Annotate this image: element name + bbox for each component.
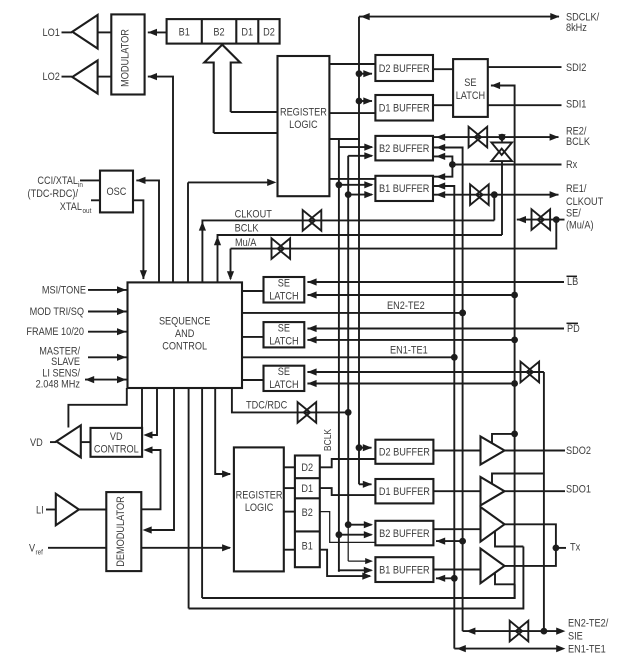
svg-text:B1: B1 — [302, 541, 314, 553]
svg-text:SE/: SE/ — [566, 208, 581, 220]
svg-text:LOGIC: LOGIC — [245, 503, 274, 515]
svg-text:CLKOUT: CLKOUT — [235, 209, 272, 221]
svg-text:(TDC-RDC)/: (TDC-RDC)/ — [28, 188, 79, 200]
svg-text:MOD TRI/SQ: MOD TRI/SQ — [30, 306, 85, 318]
svg-text:EN2-TE2/: EN2-TE2/ — [568, 618, 608, 630]
svg-text:B1 BUFFER: B1 BUFFER — [379, 565, 429, 577]
svg-text:D2 BUFFER: D2 BUFFER — [379, 447, 430, 459]
svg-text:B1 BUFFER: B1 BUFFER — [379, 184, 429, 196]
svg-text:OSC: OSC — [107, 186, 127, 198]
svg-text:VD: VD — [30, 437, 43, 449]
svg-text:LATCH: LATCH — [269, 336, 298, 348]
svg-text:B2: B2 — [213, 27, 225, 39]
svg-text:LATCH: LATCH — [269, 291, 298, 303]
svg-text:FRAME 10/20: FRAME 10/20 — [26, 327, 84, 339]
svg-text:SDO1: SDO1 — [566, 484, 591, 496]
svg-text:V: V — [29, 543, 35, 555]
svg-text:SEQUENCE: SEQUENCE — [159, 316, 211, 328]
svg-text:EN2-TE2: EN2-TE2 — [387, 300, 425, 312]
svg-text:EN1-TE1: EN1-TE1 — [390, 345, 428, 357]
svg-text:EN1-TE1: EN1-TE1 — [568, 644, 606, 656]
svg-text:Rx: Rx — [566, 160, 577, 172]
svg-text:D2: D2 — [301, 462, 313, 474]
svg-text:TDC/RDC: TDC/RDC — [246, 400, 287, 412]
svg-text:8kHz: 8kHz — [566, 22, 587, 34]
svg-text:SDI1: SDI1 — [566, 99, 587, 111]
svg-text:XTAL: XTAL — [60, 201, 83, 213]
svg-text:RE1/: RE1/ — [566, 184, 587, 196]
svg-text:B2: B2 — [302, 507, 314, 519]
svg-text:in: in — [78, 182, 83, 190]
svg-text:SE: SE — [278, 366, 291, 378]
svg-text:SE: SE — [278, 323, 291, 335]
svg-text:SDI2: SDI2 — [566, 62, 587, 74]
svg-text:D1: D1 — [241, 27, 253, 39]
svg-text:LB: LB — [567, 276, 579, 288]
svg-text:D1: D1 — [301, 483, 313, 495]
svg-text:Mu/A: Mu/A — [235, 237, 257, 249]
svg-text:2.048 MHz: 2.048 MHz — [36, 379, 80, 391]
svg-text:B2 BUFFER: B2 BUFFER — [379, 143, 429, 155]
svg-text:D2: D2 — [263, 27, 275, 39]
svg-text:Tx: Tx — [570, 542, 580, 554]
svg-text:SIE: SIE — [568, 631, 583, 643]
svg-text:SE: SE — [278, 278, 291, 290]
svg-text:LI: LI — [36, 505, 44, 517]
svg-text:AND: AND — [175, 328, 194, 340]
svg-text:REGISTER: REGISTER — [236, 490, 283, 502]
svg-text:MODULATOR: MODULATOR — [120, 29, 132, 87]
svg-text:SLAVE: SLAVE — [51, 356, 80, 368]
svg-text:BCLK: BCLK — [322, 428, 333, 451]
svg-text:VD: VD — [110, 431, 123, 443]
svg-text:REGISTER: REGISTER — [280, 107, 327, 119]
svg-text:(Mu/A): (Mu/A) — [566, 220, 594, 232]
svg-text:B2 BUFFER: B2 BUFFER — [379, 528, 429, 540]
svg-text:B1: B1 — [179, 27, 191, 39]
svg-text:BCLK: BCLK — [566, 137, 590, 149]
svg-text:BCLK: BCLK — [235, 223, 259, 235]
svg-text:CONTROL: CONTROL — [162, 341, 207, 353]
svg-text:LATCH: LATCH — [269, 379, 298, 391]
svg-text:CLKOUT: CLKOUT — [566, 196, 603, 208]
svg-text:out: out — [83, 208, 92, 216]
svg-text:DEMODULATOR: DEMODULATOR — [115, 496, 127, 567]
svg-text:CCI/XTAL: CCI/XTAL — [37, 175, 78, 187]
svg-text:MSI/TONE: MSI/TONE — [42, 285, 86, 297]
svg-text:D1 BUFFER: D1 BUFFER — [379, 103, 430, 115]
svg-text:SE: SE — [464, 77, 477, 89]
svg-text:D2 BUFFER: D2 BUFFER — [379, 63, 430, 75]
svg-text:ref: ref — [35, 549, 42, 557]
svg-text:LO2: LO2 — [43, 72, 61, 84]
svg-text:LATCH: LATCH — [456, 90, 485, 102]
svg-text:CONTROL: CONTROL — [94, 444, 139, 456]
svg-text:PD: PD — [567, 323, 580, 335]
svg-text:LO1: LO1 — [43, 27, 61, 39]
svg-text:LOGIC: LOGIC — [289, 119, 318, 131]
svg-text:SDO2: SDO2 — [566, 446, 591, 458]
svg-text:D1 BUFFER: D1 BUFFER — [379, 486, 430, 498]
